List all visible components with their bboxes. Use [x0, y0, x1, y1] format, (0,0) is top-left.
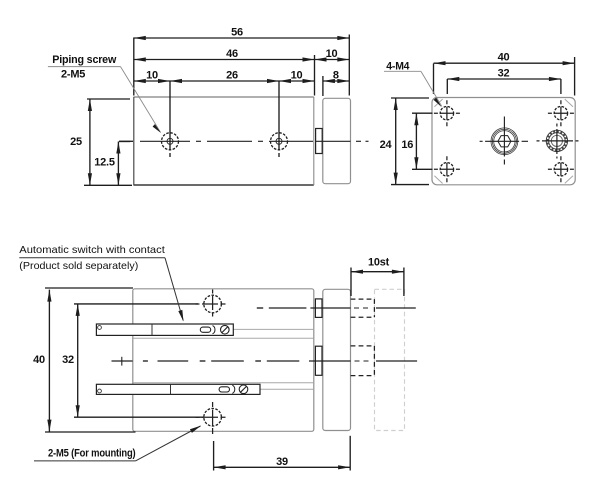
svg-text:Piping screw: Piping screw	[52, 54, 116, 66]
svg-text:10: 10	[146, 70, 158, 82]
svg-text:10: 10	[326, 48, 338, 60]
svg-text:24: 24	[380, 139, 393, 151]
svg-text:40: 40	[498, 51, 510, 63]
svg-text:10: 10	[291, 70, 303, 82]
svg-text:32: 32	[498, 67, 510, 79]
svg-text:16: 16	[401, 139, 413, 151]
svg-text:8: 8	[333, 70, 339, 82]
svg-text:40: 40	[33, 354, 45, 366]
svg-text:2-M5 (For mounting): 2-M5 (For mounting)	[48, 448, 136, 460]
svg-text:2-M5: 2-M5	[61, 69, 85, 81]
svg-text:46: 46	[226, 48, 238, 60]
svg-text:12.5: 12.5	[94, 157, 115, 169]
svg-text:39: 39	[276, 456, 288, 468]
svg-text:(Product sold separately): (Product sold separately)	[19, 260, 138, 272]
svg-text:4-M4: 4-M4	[386, 61, 410, 73]
svg-text:32: 32	[62, 354, 74, 366]
svg-text:25: 25	[70, 136, 82, 148]
svg-text:Automatic switch with contact: Automatic switch with contact	[19, 244, 165, 256]
svg-text:10st: 10st	[368, 256, 390, 268]
svg-text:26: 26	[226, 70, 238, 82]
svg-text:56: 56	[231, 27, 243, 39]
